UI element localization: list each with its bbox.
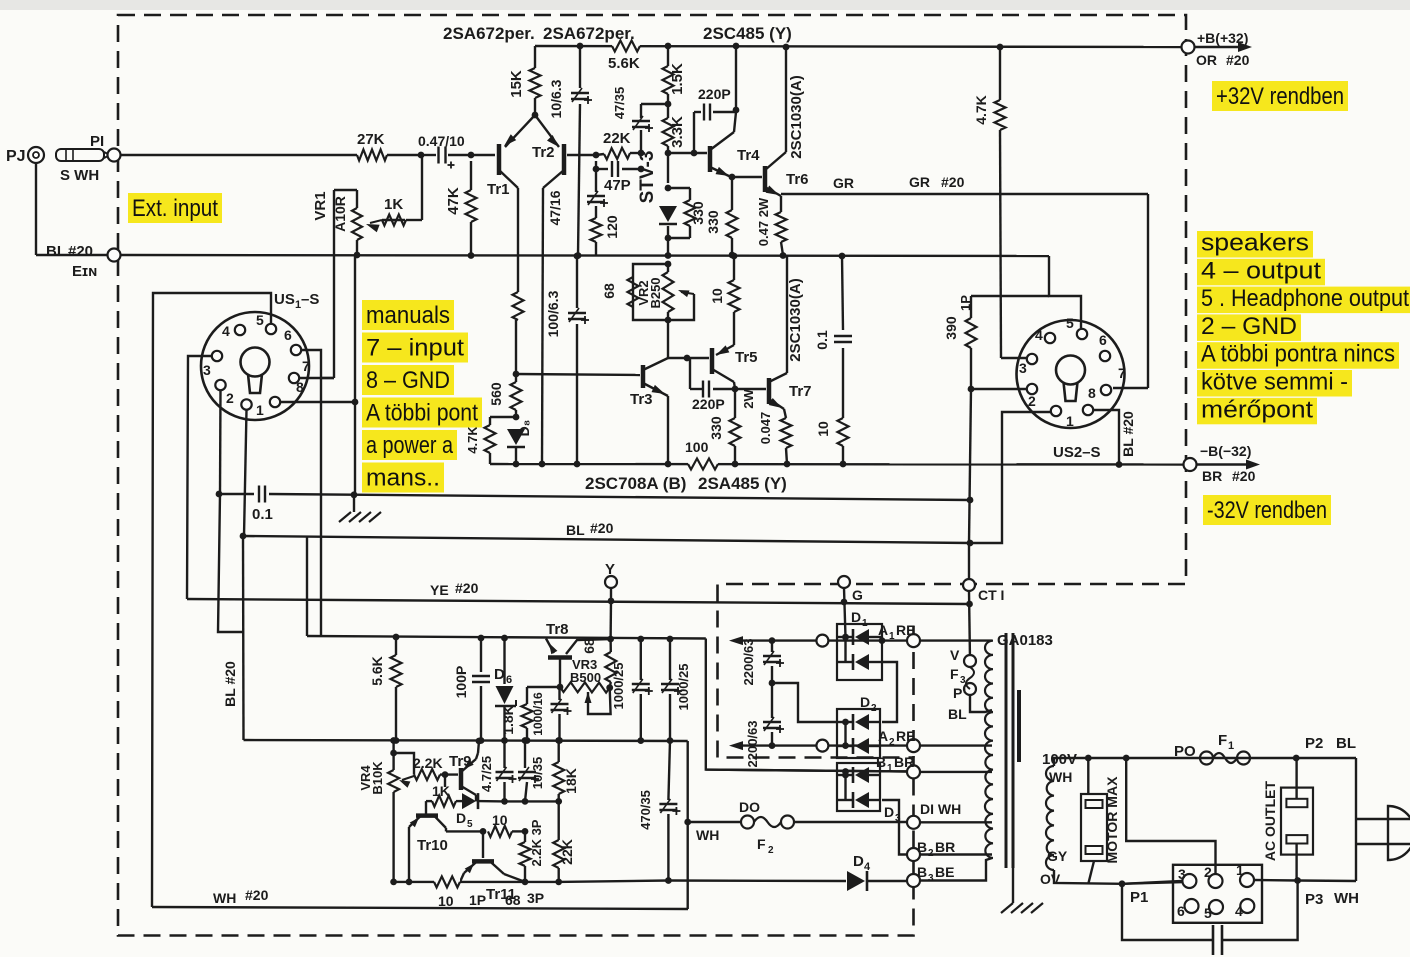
svg-text:BL #20: BL #20 — [222, 661, 238, 707]
svg-text:22K: 22K — [559, 839, 575, 865]
svg-text:BR: BR — [935, 839, 955, 855]
node 47K top — [468, 152, 475, 159]
svg-text:B500: B500 — [570, 670, 601, 685]
svg-text:F: F — [1218, 732, 1227, 749]
US1 pin5 wire — [152, 293, 271, 907]
wire D1 bottom link — [882, 662, 897, 722]
resistor 4.7K (D8) — [465, 417, 516, 464]
svg-text:10/35: 10/35 — [530, 757, 545, 790]
svg-text:0.47/10: 0.47/10 — [418, 133, 465, 149]
capacitor 220P (Tr4) — [694, 86, 739, 153]
highlight -32V rendben — [1203, 495, 1331, 525]
terminal -B — [1184, 458, 1197, 471]
svg-text:18K: 18K — [563, 768, 579, 794]
plug body S WH — [56, 149, 110, 161]
capacitor 2200/63 no2 — [745, 683, 784, 768]
svg-text:47/16: 47/16 — [547, 190, 563, 225]
wire D5 line extension — [505, 800, 559, 802]
wire B1 line — [706, 768, 911, 775]
svg-text:6: 6 — [1099, 332, 1107, 348]
svg-text:A10R: A10R — [332, 196, 348, 232]
ground symbol (main) — [339, 495, 381, 522]
wire P to winding — [970, 695, 992, 712]
VR4 wiper and 2.2K — [394, 753, 458, 788]
tube socket US2-S — [1017, 320, 1125, 461]
svg-text:Tr6: Tr6 — [786, 171, 809, 188]
capacitor 100/6.3 — [545, 253, 589, 468]
svg-text:G: G — [852, 587, 863, 603]
svg-text:3.3K: 3.3K — [669, 116, 686, 148]
diode D4 — [668, 853, 907, 891]
svg-text:BR: BR — [1202, 468, 1222, 484]
label -B(-32) — [1200, 443, 1251, 459]
highlight speakers block — [1197, 230, 1410, 425]
svg-text:330: 330 — [690, 201, 706, 225]
svg-text:5 . Headphone output: 5 . Headphone output — [1201, 285, 1409, 312]
svg-text:2200/63: 2200/63 — [745, 721, 760, 768]
wire BL wire to railB — [306, 537, 308, 636]
wire A2 to winding — [920, 744, 992, 746]
svg-text:1000/16: 1000/16 — [531, 692, 545, 736]
svg-text:10: 10 — [492, 812, 508, 828]
capacitor 47/35 — [612, 87, 668, 157]
svg-text:560: 560 — [488, 382, 504, 406]
wire B2 to winding — [920, 853, 992, 855]
svg-text:BL: BL — [948, 706, 967, 722]
wire -B rail — [490, 463, 1185, 466]
transistor Tr1 — [487, 115, 535, 198]
svg-text:P3: P3 — [1305, 891, 1323, 908]
svg-text:D: D — [494, 666, 505, 683]
wire GR down to US2 pin7 — [1113, 194, 1148, 388]
svg-text:D: D — [860, 694, 870, 710]
svg-text:390: 390 — [943, 316, 959, 340]
resistor 68 (VR3) — [581, 638, 616, 691]
wire WH #20 — [152, 887, 688, 909]
svg-text:CT I: CT I — [978, 587, 1004, 603]
label 0.1 (cap) — [252, 506, 273, 523]
wire +B top rail — [535, 46, 1183, 47]
capacitor line P1-P3 — [1122, 881, 1298, 956]
svg-text:1: 1 — [1236, 862, 1244, 878]
svg-text:2200/63: 2200/63 — [741, 639, 756, 686]
resistor 1K and diode D5 — [426, 775, 505, 830]
zener D6 — [494, 635, 516, 744]
svg-text:10: 10 — [438, 893, 454, 909]
label 2SC708A (B) — [585, 474, 686, 493]
terminal EIN — [108, 249, 121, 262]
resistor 0.047 2W — [741, 389, 792, 468]
svg-text:0.047: 0.047 — [758, 412, 773, 445]
svg-text:22K: 22K — [603, 130, 631, 147]
capacitor 1000/16 — [531, 687, 572, 744]
potentiometer VR2 with 68 — [628, 261, 695, 324]
wire Tr5 collector — [708, 382, 741, 467]
terminal Y — [605, 561, 617, 604]
capacitor 0.1 and resistor 10 — [814, 253, 852, 468]
svg-text:AC OUTLET: AC OUTLET — [1262, 781, 1278, 862]
primary 100V winding — [1040, 751, 1077, 887]
svg-text:470/35: 470/35 — [638, 790, 653, 830]
capacitor 100P — [453, 635, 490, 744]
svg-text:Ext. input: Ext. input — [132, 195, 218, 222]
svg-text:BR: BR — [894, 754, 914, 770]
wire D4 rail left — [559, 881, 669, 882]
svg-text:68: 68 — [601, 283, 617, 299]
node VR1 bottom on EIN rail — [354, 252, 361, 259]
highlight manuals block — [362, 300, 482, 493]
svg-text:2SA672per.: 2SA672per. — [543, 24, 635, 43]
svg-text:A: A — [878, 622, 888, 638]
rectifier D3 block — [837, 763, 901, 824]
svg-text:#20: #20 — [455, 580, 479, 596]
svg-text:PO: PO — [1174, 743, 1196, 760]
node Tr2 leg on -B rail — [539, 461, 546, 468]
svg-text:DO: DO — [739, 799, 760, 815]
svg-text:1: 1 — [1066, 413, 1074, 429]
US2 pin8 wire to -B rail — [1093, 410, 1136, 468]
wire YE #20 — [187, 580, 969, 604]
US1 pin3 wire — [187, 356, 212, 599]
svg-text:2SC1030(A): 2SC1030(A) — [788, 75, 805, 158]
svg-text:+32V rendben: +32V rendben — [1216, 83, 1344, 110]
resistor 560 — [488, 374, 522, 420]
svg-text:3: 3 — [203, 362, 211, 378]
diode STV-3 — [637, 151, 677, 259]
terminal A2 RE — [878, 728, 920, 752]
wire D3 bottom link — [882, 800, 907, 855]
label BL #20 input — [46, 243, 93, 260]
svg-text:2: 2 — [226, 390, 234, 406]
svg-text:−B(−32): −B(−32) — [1200, 443, 1251, 459]
svg-text:15K: 15K — [508, 70, 525, 98]
svg-text:V: V — [950, 647, 960, 663]
transistor Tr9 — [449, 738, 482, 802]
connector 6-pin box — [1173, 865, 1262, 923]
wire CT down to transformer — [969, 389, 971, 660]
svg-text:manuals: manuals — [366, 302, 450, 329]
svg-text:3: 3 — [1178, 866, 1186, 882]
svg-text:B: B — [917, 839, 927, 855]
svg-text:P1: P1 — [1130, 889, 1148, 906]
capacitor 47P — [593, 161, 645, 194]
wire winding top to fuse line — [1054, 755, 1356, 766]
highlight Ext. input — [128, 193, 222, 223]
label VR2 block — [601, 277, 663, 308]
potentiometer VR3 B500 — [560, 657, 610, 693]
label PI — [90, 133, 104, 150]
svg-text:VR1: VR1 — [312, 191, 329, 220]
wire BL vertical to railC — [222, 536, 244, 740]
wire GR — [781, 174, 1148, 194]
svg-text:D: D — [884, 804, 894, 820]
svg-text:mans..: mans.. — [366, 465, 440, 492]
railB right corner to B1 — [706, 639, 911, 772]
railC right corner to WH node — [684, 741, 691, 909]
svg-text:-32V rendben: -32V rendben — [1207, 497, 1327, 524]
svg-text:Tr10: Tr10 — [417, 837, 448, 854]
node Tr1 leg to Tr3 base — [513, 371, 520, 378]
motor MOTOR MAX — [1081, 758, 1120, 884]
US1 pin8 wire to ground node — [280, 255, 358, 494]
transistor Tr10 — [406, 816, 448, 886]
resistor 27K — [357, 131, 387, 161]
terminal +B — [1182, 41, 1195, 54]
wire G down to D1 — [844, 588, 846, 637]
label WH — [696, 827, 719, 843]
wire VR2 to Tr3 collector — [668, 320, 690, 361]
svg-text:1K: 1K — [432, 783, 450, 799]
svg-text:100P: 100P — [453, 666, 469, 699]
svg-text:D: D — [851, 609, 861, 625]
svg-text:OV: OV — [1040, 871, 1061, 887]
svg-text:1.8K: 1.8K — [500, 705, 516, 735]
terminal G — [838, 576, 863, 605]
transformer secondary upper coil — [985, 641, 993, 755]
svg-text:Tr8: Tr8 — [546, 621, 569, 638]
resistor 10 (Tr5 emitter) — [709, 253, 740, 345]
svg-text:2 – GND: 2 – GND — [1201, 313, 1297, 340]
svg-text:WH: WH — [213, 890, 236, 906]
svg-text:3: 3 — [928, 873, 934, 884]
svg-text:120: 120 — [604, 215, 620, 239]
transistor Tr2 — [532, 115, 596, 188]
svg-text:OR: OR — [1196, 52, 1217, 68]
resistor 47K — [445, 161, 477, 259]
wire DI to winding — [920, 821, 992, 823]
transistor Tr6 — [732, 152, 809, 196]
transistor Tr7 — [735, 373, 812, 409]
AC plug — [1356, 758, 1410, 881]
capacitor 10/35 — [518, 737, 545, 805]
US1 pin2 wire — [219, 390, 222, 494]
svg-text:8: 8 — [1088, 385, 1096, 401]
wire A1 to winding — [920, 639, 992, 641]
svg-text:BL #20: BL #20 — [1120, 411, 1136, 457]
svg-text:GY: GY — [1047, 848, 1068, 864]
svg-text:B10K: B10K — [370, 761, 385, 795]
svg-text:27K: 27K — [357, 131, 385, 148]
svg-text:F: F — [950, 666, 959, 682]
resistor 10 1P (railD) — [434, 874, 486, 909]
label 2SA672per. (Tr1) — [443, 24, 535, 43]
svg-text:F: F — [757, 836, 766, 852]
svg-text:0.1: 0.1 — [252, 506, 273, 523]
svg-text:PI: PI — [90, 133, 104, 150]
wire B1 to winding — [920, 771, 992, 773]
svg-text:220P: 220P — [698, 86, 731, 102]
svg-text:220P: 220P — [692, 396, 725, 412]
arrow -B output — [1197, 460, 1260, 470]
resistor 1.8K — [500, 687, 560, 744]
wire PI to 27K — [120, 154, 357, 156]
svg-text:WH: WH — [1049, 769, 1072, 785]
rectifier D1 block — [837, 624, 882, 680]
svg-text:RE: RE — [896, 728, 915, 744]
svg-text:speakers: speakers — [1201, 230, 1309, 257]
svg-text:#20: #20 — [1226, 52, 1250, 68]
potentiometer VR4 B10K — [358, 737, 399, 885]
svg-text:2: 2 — [871, 703, 877, 714]
wire EIN mid rail — [120, 255, 1049, 256]
terminal B2 BR — [907, 839, 955, 861]
svg-text:1: 1 — [1228, 740, 1234, 752]
svg-text:A többi pontra nincs: A többi pontra nincs — [1201, 341, 1395, 368]
svg-text:#20: #20 — [941, 174, 965, 190]
svg-text:4 – output: 4 – output — [1201, 257, 1321, 284]
svg-text:D: D — [853, 853, 864, 870]
wiper arrow VR1 — [366, 220, 405, 232]
label 2SC485 (Y) — [703, 24, 792, 43]
wire 390 bottom to US2 pin2 — [971, 388, 1027, 390]
transformer secondary lower coil — [985, 755, 993, 858]
transformer ground — [1001, 868, 1043, 913]
wire B3 to winding — [920, 858, 992, 881]
svg-text:–S: –S — [301, 291, 319, 308]
svg-text:+B(+32): +B(+32) — [1197, 30, 1248, 46]
svg-text:2SC1030(A): 2SC1030(A) — [787, 278, 804, 361]
resistor 330 (STV) — [668, 188, 706, 238]
transistor Tr4 — [668, 132, 760, 180]
svg-text:4.7/25: 4.7/25 — [479, 756, 494, 792]
svg-text:7 – input: 7 – input — [366, 335, 464, 362]
svg-text:5: 5 — [256, 312, 264, 328]
svg-text:100/6.3: 100/6.3 — [545, 290, 561, 337]
wire pin1 to P3 — [1254, 877, 1359, 908]
svg-text:1P: 1P — [958, 295, 973, 311]
svg-text:2: 2 — [1204, 864, 1212, 880]
svg-text:1P: 1P — [469, 892, 486, 908]
terminal B1 BR — [876, 754, 920, 778]
svg-text:P’: P’ — [953, 685, 966, 701]
svg-text:6: 6 — [284, 327, 292, 343]
wire P1 to pin3 — [1122, 881, 1182, 906]
wire Tr2 collector leg — [542, 188, 543, 464]
terminal B3 BE — [907, 864, 954, 887]
svg-text:8: 8 — [296, 379, 304, 395]
label D1 — [851, 609, 868, 629]
svg-text:PJ: PJ — [6, 148, 26, 165]
US1 pin circles and numbers — [203, 312, 310, 418]
label EIN — [72, 263, 97, 280]
wire pin2 leg to BL vertical — [218, 494, 243, 632]
svg-text:BL: BL — [566, 522, 585, 538]
wire A2 line — [729, 740, 907, 752]
svg-text:68: 68 — [505, 892, 521, 908]
terminal DI WH — [907, 801, 961, 829]
svg-text:a power a: a power a — [366, 432, 454, 459]
capacitor 10/6.3 — [548, 43, 592, 259]
svg-text:MOTOR MAX: MOTOR MAX — [1104, 776, 1120, 864]
rectifier D2 block — [837, 694, 880, 758]
wire jack to EIN — [36, 163, 107, 255]
phone jack PJ — [6, 147, 44, 165]
terminal CT I — [963, 579, 1004, 607]
resistor 330 (Tr4 emitter) — [705, 177, 738, 258]
svg-text:0.1: 0.1 — [814, 330, 830, 350]
svg-text:Tr9: Tr9 — [449, 753, 472, 770]
US1 pin6 pin7 wires — [299, 350, 334, 636]
svg-text:5.6K: 5.6K — [369, 656, 385, 686]
svg-text:2SA672per.: 2SA672per. — [443, 24, 535, 43]
highlight +32V rendben — [1212, 81, 1348, 111]
svg-text:2.2K: 2.2K — [413, 755, 443, 771]
transistor Tr8 — [546, 621, 611, 690]
svg-text:47P: 47P — [604, 177, 631, 194]
svg-text:Y: Y — [605, 561, 615, 578]
svg-text:7: 7 — [302, 358, 310, 374]
svg-text:Tr2: Tr2 — [532, 144, 555, 161]
svg-text:68: 68 — [581, 638, 597, 654]
wire Tr6 collector to rail — [783, 44, 805, 159]
svg-text:330: 330 — [708, 416, 724, 440]
svg-text:1000/25: 1000/25 — [611, 663, 626, 710]
node Tr2 base — [593, 152, 600, 159]
svg-text:B: B — [917, 864, 927, 880]
svg-text:mérőpont: mérőpont — [1201, 396, 1313, 423]
capacitor 4.7/25 — [479, 741, 517, 805]
svg-text:6: 6 — [506, 674, 512, 686]
labels 68 3P — [505, 890, 544, 908]
wire winding bottom rail — [1054, 870, 1184, 887]
node Y to Tr8 rail — [607, 601, 614, 642]
svg-text:10: 10 — [709, 288, 725, 304]
svg-text:US: US — [274, 291, 295, 308]
svg-text:5: 5 — [1204, 905, 1212, 921]
wire Tr7 collector — [787, 256, 804, 373]
resistor 5.6K in top rail — [608, 38, 640, 72]
terminal PI — [108, 149, 121, 162]
svg-text:2: 2 — [768, 845, 774, 856]
svg-text:2SA485 (Y): 2SA485 (Y) — [698, 474, 787, 493]
svg-text:4: 4 — [864, 861, 871, 873]
resistor 22K — [596, 130, 641, 159]
wire Tr4 collector to rail — [733, 43, 740, 132]
svg-text:B250: B250 — [648, 277, 663, 308]
wire node to Tr1 base — [471, 154, 495, 156]
svg-text:2: 2 — [1028, 393, 1036, 409]
svg-text:1K: 1K — [384, 196, 403, 213]
resistor 5.6K (bias) — [369, 634, 402, 744]
svg-text:4: 4 — [222, 323, 230, 339]
svg-text:B: B — [876, 754, 886, 770]
svg-text:#20: #20 — [1232, 468, 1256, 484]
svg-text:WH: WH — [1334, 890, 1359, 907]
label BR #20 — [1202, 468, 1256, 484]
US2 pin circles and numbers — [1019, 315, 1126, 429]
resistor 3.3K — [663, 104, 687, 156]
diode D8 — [507, 420, 532, 468]
svg-text:Tr4: Tr4 — [737, 147, 760, 164]
svg-text:10: 10 — [815, 421, 831, 437]
wire 0.1 ground line — [216, 486, 974, 504]
resistor 1K (VR1 wiper) — [382, 155, 422, 226]
svg-text:2.2K 3P: 2.2K 3P — [529, 819, 544, 866]
capacitor 1000/25 no1 — [611, 636, 653, 744]
svg-text:WH: WH — [696, 827, 719, 843]
wire 27K to node — [387, 152, 424, 159]
wire caps mid to D2 — [772, 683, 837, 722]
svg-text:STV-3: STV-3 — [637, 151, 658, 204]
svg-text:47/35: 47/35 — [612, 87, 627, 120]
fuse F1 PO — [1174, 732, 1356, 765]
capacitor 470/35 — [638, 741, 680, 884]
svg-text:2W: 2W — [741, 389, 756, 409]
svg-text:1: 1 — [889, 631, 895, 642]
svg-text:3: 3 — [1019, 360, 1027, 376]
label GA0183 — [997, 632, 1053, 649]
resistor 15K — [508, 46, 541, 118]
